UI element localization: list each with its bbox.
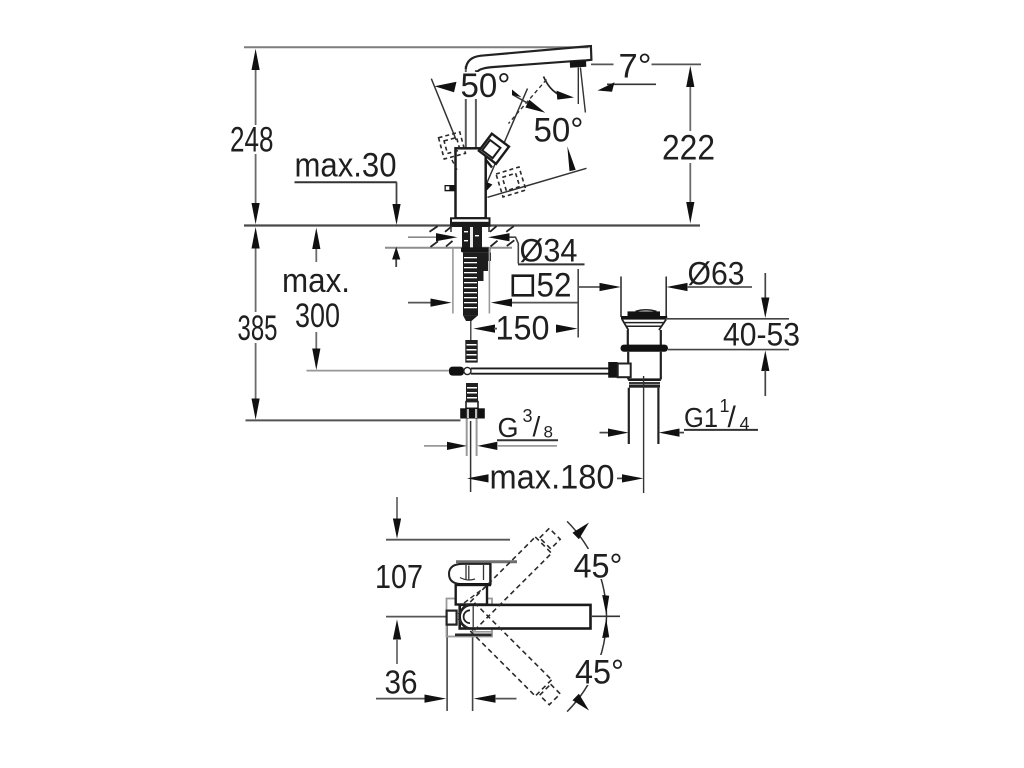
- short dashed diagonal above handle: [509, 80, 547, 124]
- plan: shadow line under body: [455, 633, 492, 636]
- hose end datum line y=420: [246, 419, 461, 421]
- svg-text:G1: G1: [684, 402, 718, 433]
- plan: spout axis reference line: [386, 616, 447, 618]
- faucet centreline lower: [470, 421, 472, 492]
- G3/8 dimension arrows: [424, 445, 448, 447]
- dia63 extension lines: [620, 277, 622, 318]
- svg-text:45°: 45°: [574, 548, 623, 586]
- max.180 dimension arrows: [467, 474, 489, 482]
- svg-text:50°: 50°: [461, 67, 511, 105]
- plan: 107 top reference line: [386, 539, 510, 541]
- base plate edge extension lines: [452, 248, 454, 314]
- waste tailpipe: [628, 388, 630, 444]
- braided hose lower section: [466, 383, 478, 402]
- svg-text:/: /: [728, 401, 737, 434]
- 40-53 reference lines: [666, 318, 790, 320]
- 7-degree spray lines: [577, 68, 579, 105]
- threaded shank through deck: [462, 226, 482, 248]
- aerator under spout tip: [570, 61, 587, 68]
- 45-degree arc lower: [567, 617, 606, 712]
- braided hose upper section: [465, 340, 477, 363]
- dimension 36 line and arrows: [376, 698, 425, 700]
- svg-text:40-53: 40-53: [723, 317, 800, 353]
- lower 45 arc arrowhead at handle: [573, 694, 590, 711]
- svg-text:max.: max.: [282, 262, 350, 300]
- dimension 150 line: [473, 325, 495, 333]
- pop-up rod knob: [449, 367, 464, 376]
- upper 45 arc arrowhead at handle: [573, 523, 590, 540]
- hex connection nut G3/8: [460, 408, 485, 418]
- rod clamp block: [608, 362, 618, 378]
- dimension 107 arrows: [396, 497, 398, 520]
- plan: dashed diagonal in body: [464, 587, 486, 604]
- faucet neck pipe lines: [465, 66, 467, 148]
- label backgrounds: [459, 72, 626, 685]
- dashed handle (vertical position): [439, 132, 466, 159]
- countertop deck line: [244, 224, 700, 226]
- pop-up waste: dome top: [636, 310, 657, 312]
- dimension 385 vertical line: [255, 248, 257, 312]
- max.30 lower arrow below deck underside: [392, 247, 400, 260]
- drain centreline: [643, 376, 645, 493]
- base plate: [451, 218, 490, 226]
- 50-degree arc arrow (second): [525, 100, 545, 113]
- dimension 222 vertical line: [689, 86, 691, 131]
- tilted handle axis line L2 with small arrow: [486, 89, 527, 185]
- svg-text:4: 4: [740, 414, 750, 434]
- 50-degree arc arrow right (upper): [499, 87, 542, 111]
- svg-text:8: 8: [544, 423, 553, 442]
- svg-text:3: 3: [523, 406, 533, 426]
- max.30 underline: [295, 181, 397, 183]
- 7-degree swing arc with arrowhead: [544, 77, 567, 98]
- 36 extension line left: [446, 611, 448, 711]
- pop-up waste: cap bar: [628, 311, 661, 316]
- 7-degree reference line left segment: [591, 63, 614, 65]
- dashed handle -45 (lower): [458, 603, 563, 708]
- svg-text:max.30: max.30: [295, 147, 397, 185]
- 45-degree arc upper: [567, 521, 606, 616]
- pop-up waste: o-ring seal: [621, 345, 669, 352]
- mounting washer: [461, 247, 491, 252]
- dashes below vertical handle: [452, 160, 458, 172]
- pop-up rod (horizontal): [471, 367, 609, 369]
- dia34 label underline: [518, 263, 585, 265]
- dimension max.300 vertical line: [315, 249, 317, 262]
- faucet body front: [456, 148, 486, 218]
- svg-text:/: /: [533, 411, 541, 442]
- handle axis line (vertical dashed position) with arrowhead: [431, 79, 456, 140]
- svg-text:385: 385: [238, 309, 278, 348]
- svg-text:G: G: [498, 412, 519, 443]
- svg-text:52: 52: [537, 267, 572, 305]
- dia63 dimension arrows: [578, 286, 606, 288]
- hole edge ticks: [450, 226, 452, 232]
- pop-up waste: flange lip: [621, 316, 667, 320]
- plan: base plate (grey): [447, 599, 493, 637]
- plan: bar axis stub line: [592, 615, 620, 617]
- svg-text:150: 150: [496, 310, 550, 348]
- hose collar: [466, 402, 478, 409]
- G1 1/4 dimension arrows: [600, 432, 609, 434]
- G1 1/4 underline: [684, 429, 758, 431]
- svg-text:max.180: max.180: [490, 459, 615, 497]
- max.30 leader down arrow: [396, 182, 398, 204]
- slender arrows at bar axis: [602, 595, 609, 615]
- rod ball joint: [464, 367, 471, 374]
- flat handle axis line with slender arrow: [488, 168, 587, 197]
- plan: body square: [456, 585, 487, 605]
- svg-text:222: 222: [662, 129, 715, 168]
- square52 dimension arrows: [408, 302, 431, 304]
- 40-53 outside arrows: [764, 273, 766, 299]
- pop-up waste: bottom rings: [628, 378, 661, 381]
- svg-text:50°: 50°: [534, 112, 584, 150]
- svg-text:Ø34: Ø34: [520, 233, 578, 269]
- dashed handle +45 (upper): [458, 526, 563, 631]
- 7-degree reference line right segment: [652, 63, 702, 65]
- svg-text:7°: 7°: [619, 48, 652, 86]
- pop-up rod leader line: [307, 370, 450, 372]
- deck underside line: [385, 247, 512, 249]
- deck hatching left: [430, 226, 515, 247]
- pop-up waste: body cylinder: [627, 352, 629, 380]
- hose tube below nut: [466, 419, 468, 457]
- plan: handle top edge (grey thick): [456, 560, 517, 563]
- top reference line (spout height datum): [244, 46, 589, 48]
- svg-text:Ø63: Ø63: [688, 256, 745, 292]
- 36 extension line right (pivot centreline): [472, 629, 474, 711]
- temperature tab on body left: [445, 185, 456, 191]
- svg-text:107: 107: [375, 558, 423, 595]
- plan: capsule bottom bold edge: [458, 583, 491, 586]
- dashed handle (flat position): [496, 167, 526, 197]
- pop-up waste: upper cylinder: [627, 330, 629, 345]
- G3/8 underline: [497, 439, 558, 441]
- stepped mounting nut: [478, 252, 491, 281]
- dimension 248 vertical line: [255, 68, 257, 125]
- deck hatching right: [490, 226, 497, 232]
- plan: spout pivot round end: [460, 605, 470, 629]
- plan: spout bar: [460, 605, 591, 629]
- dia34 dimension arrows at deck: [408, 236, 436, 238]
- label ladder line: [577, 269, 579, 338]
- plan: cartridge capsule: [449, 564, 491, 584]
- pop-up waste: tapered neck: [622, 320, 628, 330]
- svg-text:248: 248: [230, 121, 274, 160]
- label square-52 symbol: [513, 276, 533, 296]
- faucet centreline below stud: [470, 321, 472, 340]
- spout outline: [466, 46, 592, 73]
- threaded stud: [463, 252, 478, 315]
- handle cube (solid, tilted 50°): [479, 134, 509, 164]
- svg-text:300: 300: [295, 297, 340, 335]
- svg-text:36: 36: [385, 664, 418, 701]
- stud pointed tip: [463, 315, 478, 321]
- plan: hose connector box: [447, 611, 457, 625]
- svg-text:45°: 45°: [575, 654, 624, 692]
- 7-degree leader with arrowhead: [607, 83, 656, 85]
- handle lever stub: [486, 160, 492, 168]
